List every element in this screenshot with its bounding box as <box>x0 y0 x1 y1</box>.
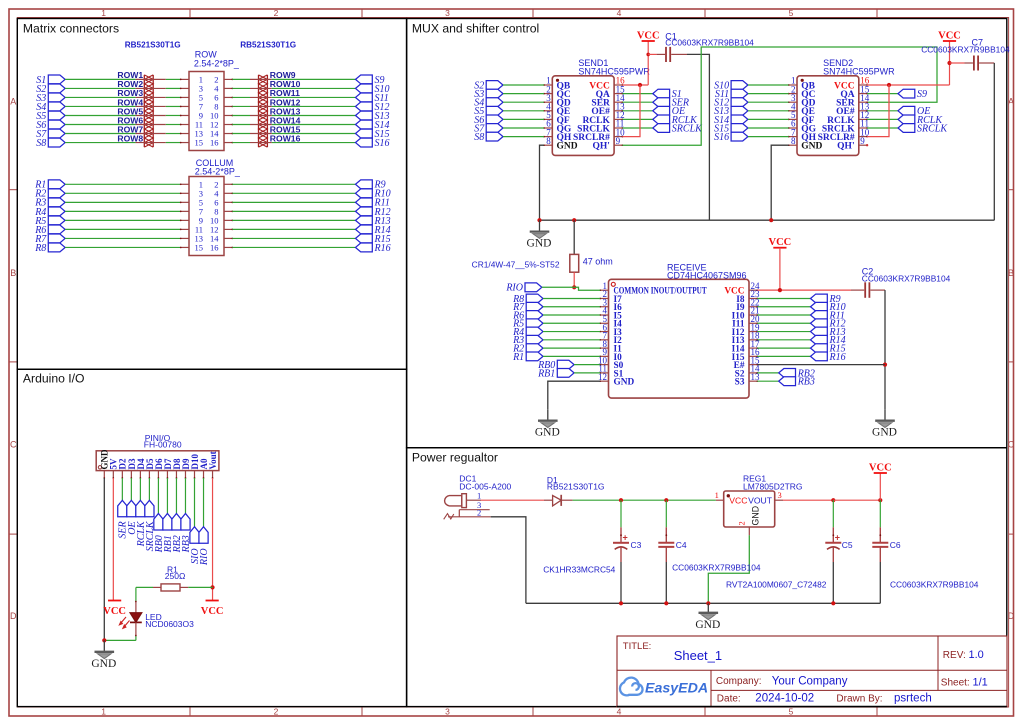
shift register SEND2 SN74HC595PWR body <box>797 76 859 156</box>
diode pin line <box>136 87 166 89</box>
svg-text:+: + <box>623 532 628 542</box>
net flag R5 <box>512 319 543 330</box>
diode pin line <box>136 133 166 135</box>
svg-text:SN74HC595PWR: SN74HC595PWR <box>578 66 650 76</box>
RECEIVE pin 3 stub <box>599 306 608 308</box>
SEND1 pin 9 stub <box>614 144 623 146</box>
svg-text:C3: C3 <box>631 540 642 550</box>
wire S4 to diode <box>65 105 136 107</box>
RECEIVE pin 18 stub <box>749 339 758 341</box>
wire S5 to SEND1 pin 4 <box>503 110 544 112</box>
header pin 12 stub <box>203 471 205 479</box>
net flag RB2 <box>779 368 815 379</box>
diode right pin line <box>250 114 272 116</box>
wire diode to ROW connector <box>166 133 181 135</box>
svg-text:4: 4 <box>617 8 622 18</box>
svg-text:GND: GND <box>801 142 822 152</box>
wire S3 to diode <box>65 96 136 98</box>
wire diode right to S16 <box>272 142 356 144</box>
SEND2 pin 12 stub <box>859 119 868 121</box>
svg-text:GND: GND <box>535 427 560 439</box>
connector ROW body <box>189 72 224 151</box>
svg-text:8: 8 <box>791 136 796 146</box>
RECEIVE pin 7 stub <box>599 339 608 341</box>
wire S14 to SEND2 pin 5 <box>748 118 789 120</box>
section border over title block <box>617 706 1007 708</box>
junction C7-VCC <box>947 61 951 65</box>
wire COLLUM connector to R16 <box>232 246 355 248</box>
SEND1 pin 15 stub <box>614 93 623 95</box>
wire VCC drop power <box>879 473 881 500</box>
SEND2 pin 15 stub <box>859 93 868 95</box>
header pin 5 stub <box>140 471 142 479</box>
frame column tick <box>704 9 706 18</box>
diode right pin line <box>250 133 272 135</box>
RECEIVE pin 16 stub <box>749 356 758 358</box>
wire diode right to S12 <box>272 105 356 107</box>
regulator REG1 LM7805D2TRG body <box>715 490 782 527</box>
wire R7 to COLLUM connector <box>65 237 181 239</box>
multiplexer RECEIVE label <box>667 262 747 280</box>
diode pin line <box>136 142 166 144</box>
wire header GND down <box>103 478 105 640</box>
wire ROW connector to diode right <box>232 133 250 135</box>
svg-text:+: + <box>835 532 840 542</box>
svg-text:VCC: VCC <box>103 606 126 617</box>
wire REG1 to C5 <box>783 499 833 501</box>
svg-text:S8: S8 <box>474 132 484 143</box>
svg-text:CK1HR33MCRC54: CK1HR33MCRC54 <box>543 564 615 574</box>
wire header D4 to flag <box>139 478 141 500</box>
RECEIVE pin 11 stub <box>599 372 608 374</box>
ROW connector pin stub right <box>224 88 233 90</box>
SEND1 pin 12 stub <box>614 119 623 121</box>
junction C6 <box>878 498 882 502</box>
wire diode right to S13 <box>272 114 356 116</box>
wire RECEIVE pin14 to RB2 <box>757 372 778 374</box>
wire DC1 pin2 to bottom rail <box>491 517 526 604</box>
COLLUM connector pin numbers 5 6 <box>199 197 219 207</box>
net flag RCLK (header) <box>136 500 147 547</box>
wire R1 to LED anode <box>135 587 137 612</box>
capacitor C1 plates <box>666 47 670 62</box>
svg-text:47 ohm: 47 ohm <box>583 257 613 267</box>
net flag S8 <box>36 138 65 149</box>
net flag R10 <box>811 302 846 313</box>
net flag S12 <box>356 102 390 113</box>
SEND2 pin 2 stub <box>788 93 797 95</box>
junction SEND1 SRCLR#-VCC <box>638 83 642 87</box>
resistor CR1 body <box>570 254 579 272</box>
COLLUM connector pin numbers 9 10 <box>199 215 219 225</box>
ROW connector pin stub right <box>224 115 233 117</box>
ROW connector pin stub right <box>224 133 233 135</box>
net flag S10 <box>356 84 390 95</box>
net flag RB0 <box>537 360 574 371</box>
RECEIVE pin 10 stub <box>599 364 608 366</box>
R1 left stub <box>153 586 161 588</box>
SEND1 pin 6 stub <box>543 127 552 129</box>
wire S7 to SEND1 pin 6 <box>503 127 544 129</box>
wire header D7 to flag <box>166 478 168 514</box>
svg-text:VCC: VCC <box>938 30 961 41</box>
net flag S11 <box>356 93 389 104</box>
R1 right stub <box>180 586 188 588</box>
wire RECEIVE pin 22 to R10 <box>757 306 810 308</box>
ROW connector pin stub left <box>180 106 189 108</box>
junction E#-GND <box>883 363 887 367</box>
svg-text:GND: GND <box>91 658 116 670</box>
ROW connector pin stub left <box>180 97 189 99</box>
svg-text:2.54-2*8P_: 2.54-2*8P_ <box>194 58 240 68</box>
wire RECEIVE GND pin12 <box>548 381 600 409</box>
wire VCC drop SEND1 <box>647 41 649 85</box>
wire SEND1 pin12 to RCLK flag <box>622 118 652 120</box>
svg-text:RB3: RB3 <box>797 377 815 388</box>
net flag S13 <box>356 111 390 122</box>
wire header A0 to flag <box>203 478 205 527</box>
diode right pin line <box>250 78 272 80</box>
header PINI/O label <box>144 433 182 450</box>
wire R8 to RECEIVE pin 2 <box>543 297 600 299</box>
net flag S1 <box>653 89 682 100</box>
svg-text:psrtech: psrtech <box>894 693 932 705</box>
wire S4 to SEND1 pin 3 <box>503 101 544 103</box>
net flag S14 <box>356 120 390 131</box>
power flag VCC over SEND2 <box>938 30 961 41</box>
frame column tick <box>532 9 534 18</box>
diode pin line <box>136 105 166 107</box>
COLLUM pin stub right <box>224 238 233 240</box>
svg-text:4: 4 <box>617 707 622 717</box>
ground symbol RECEIVE right <box>872 409 897 438</box>
wire S5 to diode <box>65 114 136 116</box>
net flag OE <box>653 106 685 117</box>
C1 right stub <box>671 53 687 55</box>
wire R3 to COLLUM connector <box>65 201 181 203</box>
net flag S9 <box>356 75 385 86</box>
REG1 pin3 stub <box>775 499 783 501</box>
net flag S15 <box>356 129 390 140</box>
section box Power regulator <box>407 448 1007 707</box>
svg-text:EasyEDA: EasyEDA <box>645 680 708 696</box>
RECEIVE pin 2 stub <box>599 298 608 300</box>
svg-text:CC0603KRX7R9BB104: CC0603KRX7R9BB104 <box>921 45 1010 55</box>
wire diode right to S10 <box>272 87 356 89</box>
svg-text:SN74HC595PWR: SN74HC595PWR <box>823 66 895 76</box>
wire RECEIVE pin 20 to R12 <box>757 322 810 324</box>
capacitor C3 bottom wire <box>620 562 622 603</box>
D1 anode stub <box>544 499 553 501</box>
wire header D5 to flag <box>148 478 150 500</box>
multiplexer RECEIVE CD74HC4067SM96 body <box>609 279 750 398</box>
diode pin line <box>136 124 166 126</box>
wire RECEIVE pin13 to RB3 <box>757 380 778 382</box>
svg-text:16: 16 <box>210 242 219 252</box>
RECEIVE pin 22 stub <box>749 306 758 308</box>
diode right pin line <box>250 142 272 144</box>
svg-text:C: C <box>1008 439 1015 449</box>
power flag VCC (Vout) <box>201 601 224 617</box>
diode right pin line <box>250 96 272 98</box>
ROW connector pin numbers 9 10 <box>199 110 219 120</box>
wire LED to GND column <box>104 639 136 641</box>
COLLUM connector pin numbers 7 8 <box>199 206 219 216</box>
svg-text:250Ω: 250Ω <box>165 571 186 581</box>
net flag S7 <box>474 123 503 134</box>
svg-text:S16: S16 <box>714 132 729 143</box>
connector DC1 label <box>459 474 511 492</box>
wire diode to ROW connector <box>166 124 181 126</box>
EasyEDA logo <box>620 678 708 697</box>
frame column tick <box>876 707 878 716</box>
wire diode to ROW connector <box>166 87 181 89</box>
svg-text:Company:: Company: <box>716 676 762 687</box>
wire SEND2 pin16 VCC <box>867 84 949 86</box>
net flag R9 <box>811 294 841 305</box>
COLLUM pin stub left <box>180 183 189 185</box>
header pin 9 stub <box>176 471 178 479</box>
svg-text:2: 2 <box>477 508 481 518</box>
net flag R9 <box>356 180 386 191</box>
svg-text:15: 15 <box>195 242 204 252</box>
SEND1 pin 4 stub <box>543 110 552 112</box>
ROW connector pin stub left <box>180 142 189 144</box>
svg-text:2: 2 <box>274 707 279 717</box>
capacitor C7 plates <box>974 56 978 71</box>
SEND2 pin 14 stub <box>859 101 868 103</box>
section box Arduino I/O <box>17 369 406 706</box>
wire C5 to VCC corner <box>833 499 880 501</box>
svg-text:C6: C6 <box>890 540 901 550</box>
DC1 pin1 stub <box>466 499 481 501</box>
SEND2 pin 13 stub <box>859 110 868 112</box>
frame row tick <box>9 533 17 535</box>
RECEIVE pin 12 stub <box>599 380 608 382</box>
junction Vout-R1 <box>210 585 214 589</box>
junction C1-VCC <box>646 53 650 57</box>
ROW connector pin stub left <box>180 124 189 126</box>
net flag S4 <box>474 98 503 109</box>
svg-text:S16: S16 <box>375 138 390 149</box>
CR1 bottom stub <box>573 272 575 287</box>
wire COLLUM connector to R11 <box>232 201 355 203</box>
wire ROW connector to diode right <box>232 124 250 126</box>
ground symbol power <box>695 603 720 631</box>
C1 left stub <box>657 53 665 55</box>
capacitor C6 bottom wire <box>879 562 881 603</box>
wire VCC to C1 <box>648 53 656 55</box>
wire COLLUM connector to R12 <box>232 210 355 212</box>
frame row tick <box>1009 533 1014 535</box>
RECEIVE pin 5 stub <box>599 322 608 324</box>
header pin 1 stub <box>103 471 105 479</box>
RECEIVE pin 15 stub <box>749 364 758 366</box>
net flag R2 <box>34 189 65 200</box>
wire COLLUM connector to R13 <box>232 219 355 221</box>
wire ROW connector to diode right <box>232 78 250 80</box>
wire header D3 to flag <box>130 478 132 500</box>
junction rail C5 <box>831 601 835 605</box>
svg-text:CC0603KRX7R9BB104: CC0603KRX7R9BB104 <box>890 580 979 590</box>
diode D1 label <box>547 475 605 492</box>
wire diode to ROW connector <box>166 114 181 116</box>
frame column tick <box>189 707 191 716</box>
junction CR1-RIO <box>572 285 576 289</box>
capacitor C4 top wire <box>665 500 667 527</box>
net flag RB3 (header) <box>181 514 192 554</box>
capacitor C5 top wire <box>832 500 834 527</box>
wire REG1 GND to ground <box>708 535 749 603</box>
capacitor C5 (polarized) <box>825 527 841 562</box>
net flag R11 <box>356 198 390 209</box>
svg-text:1.0: 1.0 <box>969 649 984 661</box>
svg-text:REV:: REV: <box>943 650 966 661</box>
power flag VCC over SEND1 <box>637 30 660 41</box>
SEND1 pin 13 stub <box>614 110 623 112</box>
wire SEND1 pin13 to OE flag <box>622 110 652 112</box>
power flag VCC (5V) <box>103 601 126 617</box>
svg-text:9: 9 <box>860 136 865 146</box>
net flag R3 <box>512 335 543 346</box>
net flag R8 <box>34 243 65 254</box>
svg-text:ROW16: ROW16 <box>270 133 301 143</box>
wire S15 to SEND2 pin 6 <box>748 127 789 129</box>
SEND2 pin 5 stub <box>788 119 797 121</box>
svg-text:Sheet:: Sheet: <box>941 678 970 689</box>
wire S1 to diode <box>65 78 136 80</box>
svg-text:16: 16 <box>210 138 219 148</box>
wire diode to ROW connector <box>166 105 181 107</box>
title block outline <box>617 636 1007 707</box>
section box Matrix connectors <box>17 19 406 370</box>
wire S7 to diode <box>65 133 136 135</box>
net flag S3 <box>36 93 65 104</box>
svg-text:R8: R8 <box>34 243 46 254</box>
svg-text:Vout: Vout <box>208 451 218 469</box>
ROW connector pin numbers 3 4 <box>199 83 220 93</box>
wire header D2 to flag <box>121 478 123 500</box>
wire R2 to COLLUM connector <box>65 192 181 194</box>
net flag R7 <box>512 302 543 313</box>
diode bank right (RB521S30T1G x8) <box>259 75 268 147</box>
COLLUM pin stub left <box>180 247 189 249</box>
REG1 pin2 stub <box>748 527 750 535</box>
net flag R14 <box>356 225 391 236</box>
svg-text:Sheet_1: Sheet_1 <box>674 648 722 663</box>
wire RB0 to RECEIVE pin10 <box>574 364 600 366</box>
wire S8 to SEND1 pin 7 <box>503 136 544 138</box>
ROW connector pin stub left <box>180 115 189 117</box>
svg-text:GND: GND <box>751 506 761 526</box>
wire GND rail <box>540 219 995 221</box>
svg-text:C4: C4 <box>676 540 687 550</box>
wire SEND2 pin15 QA to S9 <box>867 93 898 95</box>
net flag R3 <box>34 198 65 209</box>
header pin 3 stub <box>121 471 123 479</box>
C7 right stub <box>979 62 994 64</box>
svg-text:A: A <box>1008 96 1014 106</box>
COLLUM pin stub left <box>180 229 189 231</box>
wire COLLUM connector to R9 <box>232 183 355 185</box>
junction C5 <box>831 498 835 502</box>
section box MUX and shifter control <box>407 19 1007 448</box>
wire diode right to S9 <box>272 78 356 80</box>
ROW connector pin numbers 13 14 <box>195 129 220 139</box>
wire RECEIVE E# pin15 to GND <box>757 364 885 366</box>
svg-text:GND: GND <box>872 427 897 439</box>
wire D1 to REG1 <box>573 499 716 501</box>
header pin 6 stub <box>149 471 151 479</box>
ROW connector pin stub right <box>224 142 233 144</box>
diode bank left (RB521S30T1G x8) <box>144 75 153 147</box>
net flag S3 <box>474 89 503 100</box>
svg-text:VCC: VCC <box>637 30 660 41</box>
net flag S13 <box>714 106 748 117</box>
SEND2 QH' unconnected dot <box>866 144 868 146</box>
svg-text:8: 8 <box>546 136 551 146</box>
net flag S1 <box>36 75 65 86</box>
svg-text:RB521S30T1G: RB521S30T1G <box>547 481 605 491</box>
svg-text:Arduino I/O: Arduino I/O <box>23 371 85 385</box>
SEND2 pin 6 stub <box>788 127 797 129</box>
wire SEND1 pin15 QA to S1 <box>622 93 652 95</box>
wire RECEIVE pin 16 to R16 <box>757 355 810 357</box>
svg-text:Drawn By:: Drawn By: <box>836 694 882 705</box>
wire VCC drop to RECEIVE pin24 <box>779 248 781 290</box>
shift register SEND2 label <box>823 58 895 76</box>
COLLUM connector pin numbers 15 16 <box>195 242 219 252</box>
net flag RB1 <box>537 368 574 379</box>
svg-text:2: 2 <box>274 8 279 18</box>
SEND2 pin 9 stub <box>859 144 868 146</box>
wire ROW connector to diode right <box>232 87 250 89</box>
svg-text:R1: R1 <box>512 352 524 363</box>
svg-text:3: 3 <box>778 490 782 500</box>
SEND1 pin 1 stub <box>543 84 552 86</box>
net flag R1 <box>512 352 543 363</box>
RECEIVE pin 23 stub <box>749 298 758 300</box>
ROW connector pin stub right <box>224 79 233 81</box>
junction rail GND <box>706 601 710 605</box>
RECEIVE pin 24 stub <box>749 289 758 291</box>
svg-text:D: D <box>10 611 17 621</box>
frame row tick <box>9 189 17 191</box>
ground symbol MUX <box>527 220 552 249</box>
ground symbol Arduino <box>91 640 116 669</box>
wire ROW connector to diode right <box>232 96 250 98</box>
svg-text:RB521S30T1G: RB521S30T1G <box>240 41 296 50</box>
COLLUM pin stub left <box>180 192 189 194</box>
wire S8 to diode <box>65 142 136 144</box>
net flag RIO (header) <box>199 527 210 566</box>
power flag VCC over RECEIVE <box>769 237 792 248</box>
svg-text:1: 1 <box>101 707 106 717</box>
wire diode right to S15 <box>272 133 356 135</box>
net flag S7 <box>36 129 65 140</box>
header pin 8 stub <box>167 471 169 479</box>
svg-text:RIO: RIO <box>505 283 523 294</box>
net flag S5 <box>36 111 65 122</box>
RECEIVE pin 20 stub <box>749 322 758 324</box>
net flag SRCLK 2 <box>898 123 948 134</box>
net flag RB1 (header) <box>163 514 174 554</box>
junction rail C4 <box>664 601 668 605</box>
RECEIVE pin 4 stub <box>599 314 608 316</box>
SEND1 pin 3 stub <box>543 101 552 103</box>
wire R6 to RECEIVE pin 4 <box>543 314 600 316</box>
RECEIVE pin 14 stub <box>749 372 758 374</box>
